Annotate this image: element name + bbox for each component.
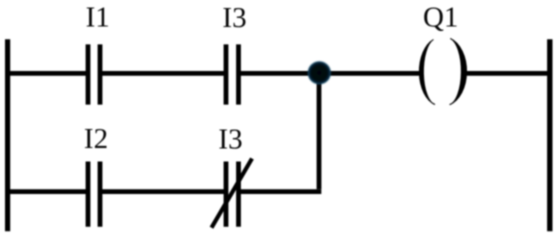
contact I3 top (normally open) (226, 44, 239, 104)
coil Q1 left parenthesis (419, 40, 435, 105)
left power rail (5, 39, 10, 231)
svg-text:I3: I3 (222, 2, 246, 34)
slash of normally-closed contact I3 (212, 159, 253, 228)
wire: bottom rung, left rail to contact I2 (5, 189, 88, 194)
wire: vertical branch from node to bottom rung (317, 73, 322, 189)
wire: coil Q1 to right rail (465, 71, 551, 76)
contact I3 bottom (normally closed) (226, 162, 239, 227)
node junction dot (308, 61, 331, 84)
wire: contact I2 to contact I3 (bottom) (100, 189, 226, 194)
contact I1 (normally open) (88, 44, 100, 104)
svg-text:Q1: Q1 (423, 2, 458, 34)
wire: contact I3 (bottom) to branch corner (239, 189, 322, 194)
contact I2 (normally open) (88, 162, 100, 227)
wire: contact I3 to coil Q1 through node (239, 71, 422, 76)
svg-text:I1: I1 (86, 1, 110, 33)
right power rail (547, 39, 552, 231)
coil Q1 right parenthesis (450, 39, 467, 105)
wire: contact I1 to contact I3 (top) (100, 71, 226, 76)
svg-text:I3: I3 (218, 123, 242, 155)
svg-text:I2: I2 (84, 123, 108, 155)
wire: left rail to contact I1 (5, 71, 88, 76)
